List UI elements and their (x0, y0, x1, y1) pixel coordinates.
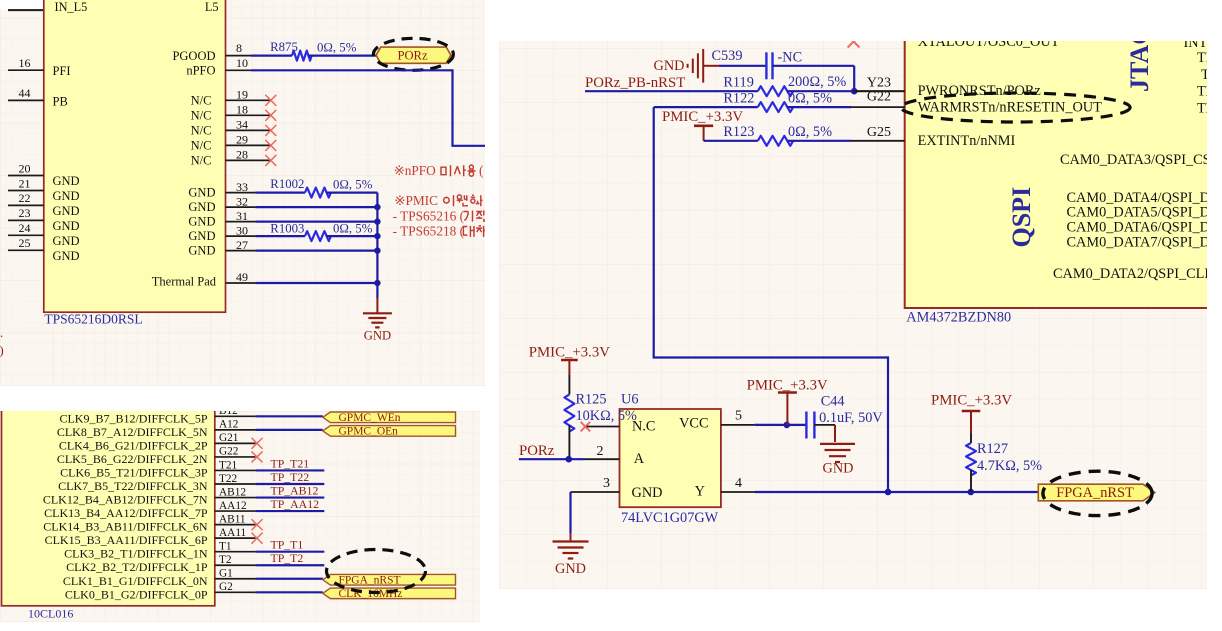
dashed highlight ellipse around FPGA_nRST port (327, 550, 426, 593)
resistor R1003 0R 5% (255, 221, 377, 241)
pin G21 (CLK4_B6_G21/DIFFCLK_2P) (59, 432, 256, 452)
pin 16 (PFI) left side (8, 56, 71, 78)
comment: PMIC dual-source note (Korean) (394, 193, 482, 208)
svg-text:8: 8 (236, 41, 242, 55)
svg-text:T2: T2 (219, 554, 232, 566)
pin 27 GND right side (188, 238, 255, 258)
resistor R123 0R 5% (704, 124, 851, 146)
svg-text:PMIC_+3.3V: PMIC_+3.3V (662, 109, 743, 125)
pin 3 GND + wire to ground (571, 476, 620, 533)
resistor R127 4.7K 5% (966, 433, 1042, 492)
wire to port CLK_16MHz (255, 591, 322, 593)
svg-text:CLK9_B7_B12/DIFFCLK_5P: CLK9_B7_B12/DIFFCLK_5P (59, 411, 207, 425)
svg-text:L5: L5 (205, 0, 219, 14)
svg-text:4.7KΩ, 5%: 4.7KΩ, 5% (977, 458, 1042, 474)
pin 4 Y + wire to FPGA_nRST (721, 476, 1038, 495)
svg-text:GND: GND (188, 200, 215, 214)
svg-text:22: 22 (19, 191, 31, 205)
svg-text:TP_T21: TP_T21 (271, 456, 310, 470)
pin name IN_L5 (cut at top) (55, 0, 88, 14)
pin T21 (CLK6_B5_T21/DIFFCLK_3P) (60, 459, 255, 479)
cut pin names at right edge (1184, 35, 1221, 117)
svg-text:G25: G25 (867, 125, 891, 140)
pin 31 GND right side (188, 209, 255, 229)
svg-text:19: 19 (236, 88, 248, 102)
pin name CAM0_DATA6/QSPI_D (1067, 220, 1210, 236)
comment: TPS65218 line (393, 224, 488, 239)
svg-text:0Ω, 5%: 0Ω, 5% (333, 178, 373, 192)
svg-text:FPGA_nRST: FPGA_nRST (339, 574, 401, 586)
svg-text:R123: R123 (723, 124, 754, 140)
wire PORz_PB-nRST net long run (654, 107, 888, 492)
svg-text:TD: TD (1201, 67, 1207, 83)
port GPMC_WEn (323, 412, 456, 424)
wire GND bus vertical (376, 193, 378, 299)
pin 34 N/C with no-ERC X (191, 118, 277, 138)
wire GND pin to bus (255, 221, 377, 223)
pin T2 (CLK2_B2_T2/DIFFCLK_1P) (66, 554, 255, 574)
capacitor C539 -NC (712, 48, 855, 79)
svg-text:FPGA_nRST: FPGA_nRST (1056, 485, 1134, 501)
svg-text:TD: TD (1197, 101, 1207, 117)
svg-text:CAM0_DATA3/QSPI_CS: CAM0_DATA3/QSPI_CS (1060, 152, 1207, 168)
pin G22 (CLK5_B6_G22/DIFFCLK_2N) (57, 446, 256, 466)
comment: nPFO unused note (Korean) (394, 163, 484, 178)
svg-text:18: 18 (236, 103, 248, 117)
wire + net label TP_AA12 (255, 497, 324, 511)
net label PORz (U6 input) (519, 443, 555, 459)
wire to port GPMC_OEn (255, 429, 322, 431)
svg-text:CLK15_B3_AA11/DIFFCLK_6P: CLK15_B3_AA11/DIFFCLK_6P (45, 533, 208, 547)
svg-text:N/C: N/C (191, 123, 212, 137)
pin 24 (GND) left side (8, 221, 80, 248)
pin 5 VCC (721, 408, 807, 428)
power symbol PMIC_+3.3V (U6 VCC) (747, 377, 828, 425)
svg-text:(: ( (479, 163, 483, 178)
svg-text:PORz: PORz (519, 443, 555, 459)
comment: TPS65216 line (393, 208, 488, 223)
power symbol PMIC_+3.3V (R127) (931, 392, 1012, 433)
svg-text:nPFO: nPFO (186, 63, 215, 77)
resistor R125 10K 5% (564, 374, 637, 459)
svg-text:GND: GND (53, 204, 80, 218)
svg-text:32: 32 (236, 194, 248, 208)
junction (374, 218, 380, 224)
svg-text:N/C: N/C (191, 138, 212, 152)
svg-text:29: 29 (236, 133, 248, 147)
svg-text:N/C: N/C (191, 108, 212, 122)
svg-text:B12: B12 (219, 411, 238, 417)
pin name L5 (cut at top) (205, 0, 219, 14)
svg-text:PMIC_+3.3V: PMIC_+3.3V (747, 377, 828, 393)
svg-text:25: 25 (19, 236, 31, 250)
svg-text:R127: R127 (977, 441, 1008, 457)
svg-text:CLK5_B6_G22/DIFFCLK_2N: CLK5_B6_G22/DIFFCLK_2N (57, 452, 208, 466)
svg-text:CAM0_DATA6/QSPI_D: CAM0_DATA6/QSPI_D (1067, 220, 1208, 236)
svg-text:CLK13_B4_AA12/DIFFCLK_7P: CLK13_B4_AA12/DIFFCLK_7P (44, 506, 208, 520)
pin 22 (GND) left side (8, 191, 80, 218)
svg-text:0Ω, 5%: 0Ω, 5% (333, 222, 373, 236)
svg-text:G2: G2 (219, 581, 233, 593)
pin B12 (CLK9_B7_B12/DIFFCLK_5P) (59, 405, 255, 425)
port CLK_16MHz (323, 588, 456, 600)
sheet-edge white notch top-left (0, 0, 44, 9)
svg-text:TP_AB12: TP_AB12 (271, 483, 319, 497)
pin name CAM0_DATA7/QSPI_D (1067, 234, 1210, 250)
pin name CAM0_DATA5/QSPI_D (1067, 205, 1210, 221)
svg-text:R1003: R1003 (270, 221, 304, 235)
resistor R122 0R 5% (654, 91, 851, 113)
svg-text:44: 44 (19, 86, 31, 100)
pin 18 N/C with no-ERC X (191, 103, 277, 123)
svg-text:AB11: AB11 (219, 513, 246, 525)
junction (374, 233, 380, 239)
junction (374, 204, 380, 210)
svg-text:74LVC1G07GW: 74LVC1G07GW (621, 510, 719, 526)
svg-text:0Ω, 5%: 0Ω, 5% (788, 124, 832, 140)
pin 28 N/C with no-ERC X (191, 148, 277, 168)
pin AA12 (CLK13_B4_AA12/DIFFCLK_7P) (44, 500, 255, 520)
svg-text:GND: GND (53, 189, 80, 203)
junction (374, 247, 380, 253)
svg-text:GPMC_OEn: GPMC_OEn (339, 425, 399, 437)
svg-text:TP_T2: TP_T2 (271, 551, 304, 565)
svg-text:XTALOUT/OSC0_OUT: XTALOUT/OSC0_OUT (918, 41, 1060, 50)
pin T22 (CLK7_B5_T22/DIFFCLK_3N) (58, 473, 255, 493)
dashed highlight ellipse around FPGA_nRST (1043, 471, 1152, 515)
svg-text:20: 20 (19, 161, 31, 175)
svg-text:GND: GND (823, 461, 854, 477)
svg-text:GND: GND (188, 244, 215, 258)
IC 10CL016 body (2, 405, 215, 606)
pin T1 (CLK3_B2_T1/DIFFCLK_1N) (64, 541, 255, 561)
pin 29 N/C with no-ERC X (191, 133, 277, 153)
pin 10 nPFO (186, 56, 251, 78)
pin AB12 (CLK12_B4_AB12/DIFFCLK_7N) (43, 486, 256, 506)
wire GND pin to bus (255, 250, 377, 252)
no-ERC X (cut at top) (848, 36, 860, 48)
svg-text:GPMC_WEn: GPMC_WEn (339, 412, 401, 424)
svg-text:CLK3_B2_T1/DIFFCLK_1N: CLK3_B2_T1/DIFFCLK_1N (64, 547, 208, 561)
pin Y23 PWRONRSTn/PORz (854, 75, 1041, 99)
svg-text:Y23: Y23 (867, 75, 891, 90)
pin G1 (CLK1_B1_G1/DIFFCLK_0N) (63, 568, 256, 588)
svg-text:10CL016: 10CL016 (28, 607, 73, 621)
svg-text:10KΩ, 5%: 10KΩ, 5% (576, 408, 638, 424)
svg-text:T1: T1 (219, 541, 232, 553)
svg-text:T22: T22 (219, 473, 238, 485)
svg-text:R1002: R1002 (270, 177, 304, 191)
svg-text:GND: GND (188, 186, 215, 200)
pin 33 GND right side (188, 180, 255, 200)
no-ERC X (252, 519, 263, 530)
pin AB11 (CLK14_B3_AB11/DIFFCLK_6N) (43, 513, 255, 533)
part number TPS65216D0RSL (44, 311, 142, 326)
wire + net label TP_T2 (255, 551, 324, 565)
pin 44 (PB) left side (8, 86, 68, 108)
svg-text:R122: R122 (723, 91, 754, 107)
no-ERC X on U6 N.C pin (581, 422, 591, 432)
port FPGA_nRST (1038, 484, 1155, 501)
no-ERC X (252, 438, 263, 449)
pin name CAM0_DATA3/QSPI_CS (1060, 152, 1211, 168)
svg-text:CLK2_B2_T2/DIFFCLK_1P: CLK2_B2_T2/DIFFCLK_1P (66, 560, 208, 574)
svg-text:AB12: AB12 (219, 486, 246, 498)
svg-text:TPS65216D0RSL: TPS65216D0RSL (44, 311, 142, 326)
svg-text:CAM0_DATA7/QSPI_D: CAM0_DATA7/QSPI_D (1067, 234, 1208, 250)
port PORz (376, 47, 451, 63)
svg-text:R119: R119 (723, 75, 753, 91)
pin 32 GND right side (188, 194, 255, 214)
svg-text:AA12: AA12 (219, 500, 247, 512)
svg-text:PGOOD: PGOOD (172, 49, 215, 63)
svg-text:T21: T21 (219, 459, 237, 471)
svg-text:G21: G21 (219, 432, 238, 444)
ground symbol GND (bus) (363, 298, 392, 343)
svg-text:GND: GND (188, 229, 215, 243)
svg-text:CAM0_DATA2/QSPI_CLK: CAM0_DATA2/QSPI_CLK (1053, 266, 1207, 282)
capacitor C44 0.1uF 50V (806, 393, 883, 438)
pin AA11 (CLK15_B3_AA11/DIFFCLK_6P) (45, 527, 256, 547)
svg-text:- TPS65216 (: - TPS65216 ( (393, 208, 464, 223)
svg-text:CLK0_B1_G2/DIFFCLK_0P: CLK0_B1_G2/DIFFCLK_0P (65, 587, 208, 601)
wire PORz to U6 pin2 (519, 456, 584, 463)
svg-text:PMIC_+3.3V: PMIC_+3.3V (529, 344, 610, 360)
svg-text:WARMRSTn/nRESETIN_OUT: WARMRSTn/nRESETIN_OUT (918, 99, 1103, 115)
svg-text:30: 30 (236, 223, 248, 237)
svg-text:28: 28 (236, 148, 248, 162)
svg-text:31: 31 (236, 209, 248, 223)
wire + net label TP_AB12 (255, 483, 324, 497)
svg-text:TP_T1: TP_T1 (271, 538, 304, 552)
IC U? TPS65216D0RSL body (44, 0, 226, 312)
pin 21 (GND) left side (8, 176, 80, 203)
port FPGA_nRST (323, 574, 456, 586)
pin G25 EXTINTn/nNMI (851, 125, 1016, 149)
wire nPFO net (251, 70, 485, 146)
svg-text:A12: A12 (219, 419, 239, 431)
pin A12 (CLK8_B7_A12/DIFFCLK_5N) (57, 419, 256, 439)
power symbol PMIC_+3.3V (R123) (662, 109, 743, 141)
svg-text:34: 34 (236, 118, 248, 132)
svg-text:CLK4_B6_G21/DIFFCLK_2P: CLK4_B6_G21/DIFFCLK_2P (59, 438, 208, 452)
svg-text:33: 33 (236, 180, 248, 194)
svg-text:49: 49 (236, 270, 248, 284)
wire from C539 down to R119 net (853, 66, 855, 91)
wire + net label TP_T1 (255, 538, 324, 552)
resistor R119 200R 5% (585, 74, 905, 96)
svg-text:CLK12_B4_AB12/DIFFCLK_7N: CLK12_B4_AB12/DIFFCLK_7N (43, 493, 208, 507)
svg-text:PMIC_+3.3V: PMIC_+3.3V (931, 392, 1012, 408)
svg-text:0.1uF, 50V: 0.1uF, 50V (819, 410, 883, 426)
port GPMC_OEn (323, 425, 456, 437)
junction (374, 280, 380, 286)
resistor R875 0R 5% (251, 40, 376, 61)
svg-text:10: 10 (236, 56, 248, 70)
svg-text:※PMIC: ※PMIC (394, 193, 438, 208)
svg-text:CLK6_B5_T21/DIFFCLK_3P: CLK6_B5_T21/DIFFCLK_3P (60, 465, 208, 479)
svg-text:A: A (634, 451, 645, 467)
svg-text:TD: TD (1197, 50, 1207, 66)
svg-text:EXTINTn/nNMI: EXTINTn/nNMI (918, 133, 1016, 149)
svg-text:Y: Y (695, 484, 705, 500)
svg-text:CLK14_B3_AB11/DIFFCLK_6N: CLK14_B3_AB11/DIFFCLK_6N (43, 520, 208, 534)
svg-text:-NC: -NC (778, 50, 803, 66)
svg-text:GND: GND (555, 561, 586, 577)
pin 1 N.C stub (587, 426, 620, 428)
pin 23 (GND) left side (8, 206, 80, 233)
svg-text:N/C: N/C (191, 153, 212, 167)
group label JTAG (rotated) (1125, 25, 1154, 92)
wire to port FPGA_nRST (255, 578, 322, 580)
svg-text:PB: PB (53, 94, 68, 108)
svg-text:5: 5 (735, 408, 742, 423)
svg-text:2: 2 (597, 444, 604, 459)
part number 10CL016 (28, 607, 73, 621)
wire + net label TP_T22 (255, 470, 324, 484)
cut text marks at left edge (0, 329, 4, 358)
svg-text:- TPS65218 (: - TPS65218 ( (393, 224, 464, 239)
svg-text:U6: U6 (621, 392, 638, 408)
part number AM4372BZDN80 (906, 310, 1011, 326)
pin stub (cut) at top-left (8, 9, 44, 11)
svg-text:GND: GND (53, 219, 80, 233)
svg-text:0Ω, 5%: 0Ω, 5% (788, 91, 832, 107)
ground symbol GND (U6 pin3) (553, 533, 589, 577)
svg-text:GND: GND (53, 234, 80, 248)
pin name XTALOUT/OSC0_OUT (cut at top) (918, 34, 1060, 50)
pin 25 (GND) left side (8, 236, 80, 263)
svg-text:※nPFO: ※nPFO (394, 163, 437, 178)
net label PORz_PB-nRST (585, 75, 685, 91)
no-ERC X (252, 451, 263, 462)
ground symbol (sideways) at C539 (654, 49, 719, 83)
svg-text:C539: C539 (712, 48, 743, 64)
svg-text:CAM0_DATA4/QSPI_D: CAM0_DATA4/QSPI_D (1067, 190, 1208, 206)
svg-text:21: 21 (19, 176, 31, 190)
svg-text:PFI: PFI (53, 64, 71, 78)
svg-text:N/C: N/C (191, 93, 212, 107)
svg-text:TD: TD (1197, 84, 1207, 100)
svg-text:JTAG: JTAG (1125, 41, 1154, 92)
svg-text:GND: GND (53, 174, 80, 188)
dashed highlight ellipse around WARMRSTn (901, 93, 1130, 122)
wire + net label TP_T21 (255, 456, 324, 470)
svg-text:CLK8_B7_A12/DIFFCLK_5N: CLK8_B7_A12/DIFFCLK_5N (57, 425, 208, 439)
svg-text:GND: GND (364, 329, 391, 343)
pin G2 (CLK0_B1_G2/DIFFCLK_0P) (65, 581, 256, 601)
pin 49 Thermal Pad (152, 270, 256, 289)
svg-text:C44: C44 (821, 393, 845, 409)
pin name CAM0_DATA2/QSPI_CLK (1053, 266, 1215, 282)
svg-text:PORz: PORz (397, 49, 427, 63)
svg-text:GND: GND (654, 58, 685, 74)
no-ERC X (252, 533, 263, 544)
svg-text:GND: GND (188, 215, 215, 229)
svg-text:200Ω, 5%: 200Ω, 5% (788, 74, 846, 90)
svg-text:AM4372BZDN80: AM4372BZDN80 (906, 310, 1011, 326)
IC U6 74LVC1G07GW body (620, 392, 721, 526)
pin G22 WARMRSTn/nRESETIN_OUT (851, 89, 1102, 115)
svg-text:TP_T22: TP_T22 (271, 470, 310, 484)
svg-text:3: 3 (603, 476, 610, 491)
pin 8 PGOOD (172, 41, 251, 63)
group label QSPI (rotated) (1007, 187, 1036, 248)
svg-text:CLK7_B5_T22/DIFFCLK_3N: CLK7_B5_T22/DIFFCLK_3N (58, 479, 208, 493)
wire to port GPMC_WEn (255, 415, 322, 417)
pin 20 (GND) left side (8, 161, 80, 188)
svg-text:·: · (0, 329, 4, 344)
svg-text:GND: GND (632, 485, 663, 501)
pin 30 GND right side (188, 223, 255, 243)
svg-text:0Ω, 5%: 0Ω, 5% (317, 41, 357, 55)
svg-text:TP_AA12: TP_AA12 (271, 497, 320, 511)
IC AM4372BZDN80 body (905, 36, 1216, 308)
resistor R1002 0R 5% (255, 177, 377, 197)
svg-text:GND: GND (53, 249, 80, 263)
svg-text:24: 24 (19, 221, 31, 235)
ground symbol GND (C44) (820, 425, 855, 477)
svg-text:23: 23 (19, 206, 31, 220)
svg-text:PORz_PB-nRST: PORz_PB-nRST (585, 75, 685, 91)
wire GND pin to bus (255, 282, 377, 284)
dashed highlight ellipse around PORz (373, 38, 453, 70)
wire GND pin to bus (255, 206, 377, 208)
pin name CAM0_DATA4/QSPI_D (1067, 190, 1210, 206)
svg-text:CLK1_B1_G1/DIFFCLK_0N: CLK1_B1_G1/DIFFCLK_0N (63, 574, 208, 588)
svg-text:CAM0_DATA5/QSPI_D: CAM0_DATA5/QSPI_D (1067, 205, 1208, 221)
svg-text:R125: R125 (576, 392, 607, 408)
svg-text:4: 4 (735, 476, 742, 491)
power symbol PMIC_+3.3V (R125) (529, 344, 610, 374)
svg-text:G1: G1 (219, 568, 233, 580)
svg-text:VCC: VCC (679, 416, 708, 432)
svg-text:QSPI: QSPI (1007, 187, 1036, 248)
svg-text:IN_L5: IN_L5 (55, 0, 88, 14)
svg-text:R875: R875 (270, 40, 298, 54)
pin 19 N/C with no-ERC X (191, 88, 277, 108)
svg-text:): ) (0, 343, 4, 358)
svg-text:AA11: AA11 (219, 527, 246, 539)
svg-text:27: 27 (236, 238, 248, 252)
svg-text:G22: G22 (219, 446, 239, 458)
pin 2 A (584, 444, 620, 459)
svg-text:Thermal Pad: Thermal Pad (152, 275, 217, 289)
svg-text:16: 16 (19, 56, 31, 70)
